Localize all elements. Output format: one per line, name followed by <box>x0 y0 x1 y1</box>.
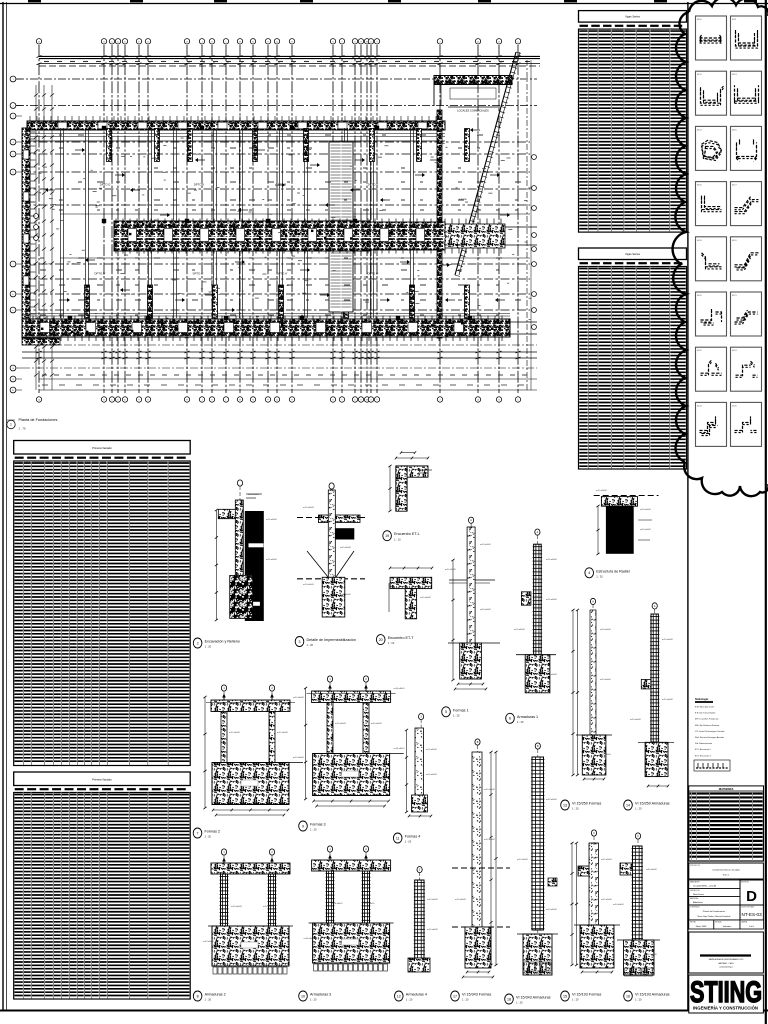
plan top exterior wall <box>27 116 445 130</box>
svg-text:contacto@stiing.cl: contacto@stiing.cl <box>719 966 733 969</box>
plan title <box>7 418 58 431</box>
svg-text:1 : 20: 1 : 20 <box>406 998 413 1002</box>
svg-text:e=10 ø8a20: e=10 ø8a20 <box>203 941 215 943</box>
rebar bending detail box r4c2 <box>731 182 762 226</box>
svg-text:NT-ES-03: NT-ES-03 <box>742 912 763 917</box>
rebar bending detail box r2c2 <box>731 71 762 115</box>
svg-text:Armaduras 1: Armaduras 1 <box>517 715 538 719</box>
svg-text:MANDANTE:: MANDANTE: <box>690 880 700 883</box>
svg-text:e=10 ø8a20: e=10 ø8a20 <box>364 903 376 905</box>
svg-text:VI 15/250 Armaduras: VI 15/250 Armaduras <box>635 802 670 806</box>
svg-text:e=10 ø8a20: e=10 ø8a20 <box>427 899 439 901</box>
svg-text:e=10 ø8a20: e=10 ø8a20 <box>304 938 316 940</box>
svg-text:Muros, Vigas, Radier y Tablas: Muros, Vigas, Radier y Tablas de Fundaci… <box>697 915 730 918</box>
svg-text:Torre 1: Torre 1 <box>723 874 731 877</box>
detail label 5 Formas 1 <box>442 707 469 718</box>
svg-text:E.R. Eje Tramo Radier: E.R. Eje Tramo Radier <box>695 712 716 715</box>
table Vigas Series at 578.5,10.6 <box>579 11 687 233</box>
detail 2 drawing Excavacion y Relleno <box>215 480 278 621</box>
svg-text:1 : 20: 1 : 20 <box>572 807 579 811</box>
column marks <box>68 126 472 320</box>
detail label 20 Encuentro ET-T <box>376 635 414 646</box>
title block bottom row <box>689 920 764 929</box>
svg-text:Encuentro ET-T: Encuentro ET-T <box>388 636 415 640</box>
locales comerciales top wall <box>434 76 512 85</box>
svg-text:1 : 20: 1 : 20 <box>205 998 212 1002</box>
svg-text:e=10 ø8a20: e=10 ø8a20 <box>455 899 467 901</box>
svg-text:Primera Vaciado: Primera Vaciado <box>92 446 112 450</box>
detail label 12 Armaduras 4 <box>395 991 427 1002</box>
svg-text:e=10 ø8a20: e=10 ø8a20 <box>613 904 625 906</box>
svg-text:e=10 ø8a20: e=10 ø8a20 <box>596 490 608 492</box>
drawing VI 15193 Formas <box>570 830 620 974</box>
svg-text:M.F. Losa Ejes Fundacion: M.F. Losa Ejes Fundacion <box>695 719 719 721</box>
svg-text:16: 16 <box>626 994 630 998</box>
svg-text:15: 15 <box>563 994 567 998</box>
svg-text:e=10 ø8a20: e=10 ø8a20 <box>277 732 289 734</box>
plan top dimension lines <box>39 56 540 66</box>
svg-text:Vigas Series: Vigas Series <box>625 252 641 256</box>
svg-text:e=10 ø8a20: e=10 ø8a20 <box>231 906 243 908</box>
detail label 18 VI 15/343 Armaduras <box>505 994 551 1005</box>
central band tick marks <box>116 219 501 254</box>
svg-text:e=10 ø8a20: e=10 ø8a20 <box>480 544 492 546</box>
revision letter box <box>740 880 763 905</box>
plan vertical grid lines <box>39 45 518 393</box>
rebar bending detail box r5c2 <box>731 237 762 281</box>
svg-text:Primera Vaciado: Primera Vaciado <box>92 777 112 781</box>
detail label 15 VI 15/193 Formas <box>561 991 602 1002</box>
locales comerciales room <box>434 85 498 113</box>
svg-text:1 : 20: 1 : 20 <box>462 998 469 1002</box>
svg-text:e=10 ø8a20: e=10 ø8a20 <box>640 509 652 511</box>
svg-text:e=10 ø8a20: e=10 ø8a20 <box>340 547 352 549</box>
svg-text:Formas 3: Formas 3 <box>310 823 326 827</box>
plan tiny annotation marks <box>31 131 532 338</box>
sheet number box <box>740 905 763 920</box>
svg-text:DPTO D': DPTO D' <box>367 272 379 276</box>
bottom band tick marks <box>26 316 502 342</box>
svg-text:Armaduras 2: Armaduras 2 <box>205 993 226 997</box>
svg-text:DPTO A': DPTO A' <box>193 272 204 276</box>
detail label 9 Formas 3 <box>299 821 326 832</box>
svg-text:W: W <box>366 41 368 43</box>
svg-text:PROYECTO:: PROYECTO: <box>690 865 701 867</box>
svg-text:J: J <box>202 41 203 43</box>
svg-text:e=10 ø8a20: e=10 ø8a20 <box>600 629 612 631</box>
svg-text:DPTO A: DPTO A <box>194 183 204 187</box>
svg-text:e=10 ø8a20: e=10 ø8a20 <box>426 774 438 776</box>
rebar bending detail box r2c1 <box>696 71 727 115</box>
plan extra dim ticks <box>37 56 521 360</box>
svg-text:SANTIAGO - CHILE: SANTIAGO - CHILE <box>718 962 734 965</box>
svg-text:e=10 ø8a20: e=10 ø8a20 <box>426 749 438 751</box>
svg-text:e=10 ø8a20: e=10 ø8a20 <box>371 723 383 725</box>
svg-text:1 : 20: 1 : 20 <box>572 998 579 1002</box>
svg-text:e=10 ø8a20: e=10 ø8a20 <box>427 929 439 931</box>
svg-text:e=10 ø8a20: e=10 ø8a20 <box>640 529 652 531</box>
svg-text:Condominio Nueva Tocopilla: Condominio Nueva Tocopilla <box>712 870 740 872</box>
svg-text:ET-T Encuentro T: ET-T Encuentro T <box>695 754 712 757</box>
stair core <box>329 142 353 312</box>
svg-text:Nivel Fosas: Nivel Fosas <box>693 894 704 896</box>
rebar bending detail box r1c2 <box>731 16 762 60</box>
title block proyecto <box>689 863 764 879</box>
svg-text:1 : 20: 1 : 20 <box>205 835 212 839</box>
svg-text:e=10 ø8a20: e=10 ø8a20 <box>229 732 241 734</box>
revision cloud <box>673 0 768 496</box>
svg-text:e=10 ø8a20: e=10 ø8a20 <box>646 954 658 956</box>
svg-text:RAMPA: RAMPA <box>459 198 467 201</box>
ramp diagonal <box>455 52 521 277</box>
svg-text:Detalle de Impermeabilización: Detalle de Impermeabilización <box>307 638 356 642</box>
svg-text:e=10 ø8a20: e=10 ø8a20 <box>335 723 347 725</box>
svg-text:1 : 10: 1 : 10 <box>394 537 401 541</box>
svg-text:Formas 2: Formas 2 <box>205 830 221 834</box>
detail 13 drawing VI 15250 Formas <box>571 598 612 780</box>
svg-text:Indicadas: Indicadas <box>723 926 732 928</box>
svg-text:Marzo 2008: Marzo 2008 <box>696 926 707 928</box>
table Vigas Series at 578.5,248 <box>579 248 687 469</box>
svg-text:VI 15/193 Armaduras: VI 15/193 Armaduras <box>635 993 670 997</box>
interior wall verticals <box>60 128 413 318</box>
svg-text:M.E. Eje Refuerzo Exterior: M.E. Eje Refuerzo Exterior <box>695 724 720 727</box>
rebar bending detail box r1c1 <box>696 16 727 60</box>
svg-text:DPTO D': DPTO D' <box>94 272 106 276</box>
drawing VI 15343 Formas <box>452 739 510 979</box>
detail label 10 Armaduras 3 <box>299 991 331 1002</box>
table Primera Vaciado at 13.7,772 <box>14 772 191 999</box>
svg-text:1 : 10: 1 : 10 <box>388 641 395 645</box>
rebar bending detail box r6c2 <box>731 292 762 336</box>
detail 20 drawing Encuentro ET-T <box>389 567 433 619</box>
svg-text:INGENIERÍA Y CONSTRUCCIÓN: INGENIERÍA Y CONSTRUCCIÓN <box>693 1006 758 1011</box>
svg-text:e=10 ø8a20: e=10 ø8a20 <box>263 906 275 908</box>
svg-text:Planta de Fundaciones: Planta de Fundaciones <box>703 910 726 913</box>
svg-text:SANTA ELENA DE HUECHURABA N. 1: SANTA ELENA DE HUECHURABA N. 1675 <box>709 958 744 961</box>
svg-text:MATERIAL:: MATERIAL: <box>690 897 699 900</box>
svg-text:19: 19 <box>385 534 389 538</box>
svg-text:1 : 20: 1 : 20 <box>635 998 642 1002</box>
drawing Armaduras 2 <box>203 849 293 974</box>
detail 14 drawing VI 15250 Armaduras <box>630 603 674 788</box>
svg-text:J: J <box>202 400 203 402</box>
plan corner footing return <box>22 338 60 345</box>
detail label 6 Armaduras 1 <box>506 713 538 724</box>
svg-text:Armaduras 4: Armaduras 4 <box>406 993 427 997</box>
svg-text:13: 13 <box>563 803 567 807</box>
svg-text:e=10 ø8a20: e=10 ø8a20 <box>514 629 526 631</box>
svg-text:Excavación y Relleno: Excavación y Relleno <box>205 640 240 644</box>
svg-text:9: 9 <box>302 824 304 828</box>
svg-text:Estructura de Radier: Estructura de Radier <box>596 569 631 573</box>
rebar bending detail box r7c1 <box>696 347 727 391</box>
svg-text:C: C <box>593 832 595 835</box>
plan bottom dimension lines <box>22 345 537 390</box>
svg-text:6: 6 <box>509 717 511 721</box>
rebar bending detail box r6c1 <box>696 292 727 336</box>
table Primera Vaciado at 13.7,440.5 <box>14 441 191 766</box>
rebar bending detail box r3c1 <box>696 126 727 170</box>
svg-text:e=10 ø8a20: e=10 ø8a20 <box>600 754 612 756</box>
svg-text:e=10 ø8a20: e=10 ø8a20 <box>340 594 352 596</box>
svg-text:e=10 ø8a20: e=10 ø8a20 <box>546 909 558 911</box>
svg-text:e=10 ø8a20: e=10 ø8a20 <box>445 569 457 571</box>
svg-text:1 : 20: 1 : 20 <box>405 840 412 844</box>
svg-text:e=10 ø8a20: e=10 ø8a20 <box>630 719 642 721</box>
svg-text:e=10 ø8a20: e=10 ø8a20 <box>601 899 613 901</box>
svg-text:REVISIONES: REVISIONES <box>719 788 734 791</box>
svg-text:20: 20 <box>379 638 383 642</box>
svg-text:DPTO A': DPTO A' <box>277 272 288 276</box>
svg-text:e=10 ø8a20: e=10 ø8a20 <box>480 609 492 611</box>
detail label 16 VI 15/193 Armaduras <box>624 991 670 1002</box>
svg-text:e=10 ø8a20: e=10 ø8a20 <box>293 757 305 759</box>
svg-text:e=10 ø8a20: e=10 ø8a20 <box>394 748 406 750</box>
detail 5 drawing Formas 1 <box>445 517 500 690</box>
svg-text:e=10 ø8a20: e=10 ø8a20 <box>546 599 558 601</box>
detail label 11 Formas 4 <box>393 833 420 844</box>
contact box <box>689 932 764 973</box>
svg-text:LOCALES COMERCIALES: LOCALES COMERCIALES <box>457 108 489 112</box>
svg-text:1 : 20: 1 : 20 <box>596 574 603 578</box>
central band openings <box>128 229 425 242</box>
svg-text:e=10 ø8a20: e=10 ø8a20 <box>266 519 278 521</box>
plan top grid bubbles <box>36 39 520 44</box>
central footing band <box>114 221 537 251</box>
svg-text:7: 7 <box>197 831 199 835</box>
drawing VI 15343 Armaduras <box>517 743 558 975</box>
svg-text:STIING: STIING <box>690 975 762 1009</box>
svg-text:2: 2 <box>197 641 199 645</box>
plan left dim verticals <box>34 85 54 390</box>
svg-text:18: 18 <box>507 997 511 1001</box>
detail label 14 VI 15/250 Armaduras <box>624 800 670 811</box>
apartment labels row 2 <box>94 272 379 276</box>
svg-text:VI 15/193 Formas: VI 15/193 Formas <box>572 993 601 997</box>
bottom band openings <box>40 323 464 333</box>
svg-text:C: C <box>637 835 639 838</box>
rebar bending detail box r4c1 <box>696 182 727 226</box>
svg-text:e=10 ø8a20: e=10 ø8a20 <box>484 789 496 791</box>
right main wall <box>437 110 442 338</box>
svg-text:10: 10 <box>301 994 305 998</box>
svg-text:e=10 ø8a20: e=10 ø8a20 <box>646 869 658 871</box>
interior wall stubs top <box>107 129 470 162</box>
svg-text:e=10 ø8a20: e=10 ø8a20 <box>484 839 496 841</box>
svg-text:Armaduras 3: Armaduras 3 <box>310 993 331 997</box>
plan left exterior wall <box>22 128 36 338</box>
svg-text:e=10 ø8a20: e=10 ø8a20 <box>420 597 432 599</box>
plan right grid bubbles <box>527 60 536 390</box>
svg-text:Sib. Sobrecimiento: Sib. Sobrecimiento <box>695 742 713 745</box>
sheet title box <box>689 905 740 920</box>
svg-text:4: 4 <box>588 571 590 575</box>
detail label 7 Formas 2 <box>193 828 220 839</box>
svg-text:11: 11 <box>396 836 400 840</box>
svg-text:Simbología:: Simbología: <box>695 698 709 701</box>
drawing Formas 3 <box>304 676 405 808</box>
svg-text:Encuentro ET-L: Encuentro ET-L <box>394 532 420 536</box>
svg-text:e=10 ø8a20: e=10 ø8a20 <box>517 859 529 861</box>
svg-text:1 de 1: 1 de 1 <box>749 926 755 928</box>
svg-text:17: 17 <box>453 994 457 998</box>
svg-text:e=10 ø8a20: e=10 ø8a20 <box>546 559 558 561</box>
svg-text:1 : 20: 1 : 20 <box>635 807 642 811</box>
svg-text:CONTENIDO:: CONTENIDO: <box>690 907 701 909</box>
rebar bending detail box r8c1 <box>696 402 727 446</box>
detail 6 drawing Armaduras 1 <box>514 529 558 693</box>
svg-text:DPTO D: DPTO D <box>368 183 379 187</box>
svg-text:Albañilería: Albañilería <box>693 901 704 904</box>
svg-text:e=10 ø8a20: e=10 ø8a20 <box>546 799 558 801</box>
bottom exterior wall footing band <box>22 319 537 337</box>
svg-text:Planta de Fundaciones: Planta de Fundaciones <box>19 418 58 422</box>
drawing Armaduras 3 <box>304 846 394 971</box>
svg-text:1 : 20: 1 : 20 <box>205 645 212 649</box>
svg-text:e=10 ø8a20: e=10 ø8a20 <box>546 674 558 676</box>
svg-text:e=10 ø8a20: e=10 ø8a20 <box>394 688 406 690</box>
rebar bending detail box r8c2 <box>731 402 762 446</box>
svg-text:REVISION:: REVISION: <box>741 882 750 884</box>
svg-text:5: 5 <box>445 710 447 714</box>
rebar bending detail box r5c1 <box>696 237 727 281</box>
detail label 8 Armaduras 2 <box>193 991 225 1002</box>
svg-text:1 : 20: 1 : 20 <box>517 720 524 724</box>
apartment labels row 1 <box>100 183 379 187</box>
svg-text:D: D <box>746 888 757 905</box>
svg-text:Formas 4: Formas 4 <box>405 835 421 839</box>
rebar bending detail box r7c2 <box>731 347 762 391</box>
plan horizontal grid lines upper <box>16 79 537 106</box>
STIING logo <box>689 975 764 1013</box>
drawing Armaduras 4 <box>408 867 439 973</box>
svg-text:ET-L Encuentro L: ET-L Encuentro L <box>695 748 712 751</box>
svg-text:12: 12 <box>397 994 401 998</box>
svg-text:8: 8 <box>197 994 199 998</box>
svg-text:1 : 75: 1 : 75 <box>19 427 26 431</box>
drawing Formas 4 <box>405 714 438 818</box>
svg-text:Tocopilla B/E/D - Lote A6: Tocopilla B/E/D - Lote A6 <box>693 885 717 888</box>
detail 19 drawing Encuentro ET-L <box>388 451 432 512</box>
svg-text:1 : 20: 1 : 20 <box>453 713 460 717</box>
interior wall stubs bottom <box>85 285 470 318</box>
drawing Formas 2 <box>203 685 304 817</box>
svg-text:e=10 ø8a20: e=10 ø8a20 <box>293 697 305 699</box>
detail 3 drawing Impermeabilizacion <box>297 483 365 617</box>
svg-text:14: 14 <box>626 803 630 807</box>
svg-text:e=10 ø8a20: e=10 ø8a20 <box>600 679 612 681</box>
detail label 2 Excavación y Relleno <box>193 638 240 649</box>
svg-text:e=10 ø8a20: e=10 ø8a20 <box>601 859 613 861</box>
svg-text:1 : 20: 1 : 20 <box>310 828 317 832</box>
svg-text:DPTO B: DPTO B <box>276 183 286 187</box>
detail label 4 Estructura de Radier <box>585 568 631 579</box>
plan small arrows <box>45 128 510 312</box>
svg-text:Vigas Series: Vigas Series <box>625 15 641 19</box>
svg-text:1 : 20: 1 : 20 <box>310 998 317 1002</box>
svg-text:E.M. Muro Eje Verde: E.M. Muro Eje Verde <box>695 706 715 709</box>
plan left secondary bubbles <box>34 214 39 241</box>
svg-text:UBICACION:: UBICACION: <box>690 889 700 892</box>
svg-text:e=10 ø8a20: e=10 ø8a20 <box>303 584 315 586</box>
detail label 19 Encuentro ET-L <box>383 531 420 542</box>
svg-text:e=10 ø8a20: e=10 ø8a20 <box>303 507 315 509</box>
plan left grid bubbles <box>10 76 22 393</box>
svg-text:VI 15/343 Formas: VI 15/343 Formas <box>462 993 491 997</box>
svg-text:VI 15/343 Armaduras: VI 15/343 Armaduras <box>516 996 551 1000</box>
svg-text:3: 3 <box>299 640 301 644</box>
svg-text:1: 1 <box>10 423 12 427</box>
svg-text:e=10 ø8a20: e=10 ø8a20 <box>266 559 278 561</box>
svg-text:V.F. Junta De Hormigon Vaciado: V.F. Junta De Hormigon Vaciado <box>695 730 725 733</box>
detail label 3 Detalle de Impermeabilización <box>295 637 356 648</box>
detail label 13 VI 15/250 Formas <box>561 800 602 811</box>
svg-text:1 : 20: 1 : 20 <box>516 1001 523 1005</box>
plan interior horizontal axis lines <box>22 134 530 317</box>
svg-text:W: W <box>366 400 368 402</box>
svg-text:e=10 ø8a20: e=10 ø8a20 <box>662 639 674 641</box>
svg-text:e=10 ø8a20: e=10 ø8a20 <box>662 699 674 701</box>
svg-text:1 : 20: 1 : 20 <box>307 643 314 647</box>
title block data rows <box>689 880 740 905</box>
detail label 17 VI 15/343 Formas <box>451 991 492 1002</box>
svg-text:Formas 1: Formas 1 <box>453 708 469 712</box>
plan bottom grid bubbles <box>36 397 520 402</box>
rebar bending detail box r3c2 <box>731 126 762 170</box>
svg-text:Rad. Recinto Hormigon Armado: Rad. Recinto Hormigon Armado <box>695 736 725 739</box>
legend mini sketch <box>694 760 730 771</box>
detail 4 drawing Estructura de Radier <box>594 490 659 555</box>
svg-text:e=10 ø8a20: e=10 ø8a20 <box>332 903 344 905</box>
svg-text:DPTO D: DPTO D <box>100 183 111 187</box>
drawing VI 15193 Armaduras <box>613 833 660 976</box>
svg-text:VI 15/250 Formas: VI 15/250 Formas <box>572 802 601 806</box>
revisiones table <box>689 786 764 861</box>
legend simbologia <box>695 698 725 757</box>
